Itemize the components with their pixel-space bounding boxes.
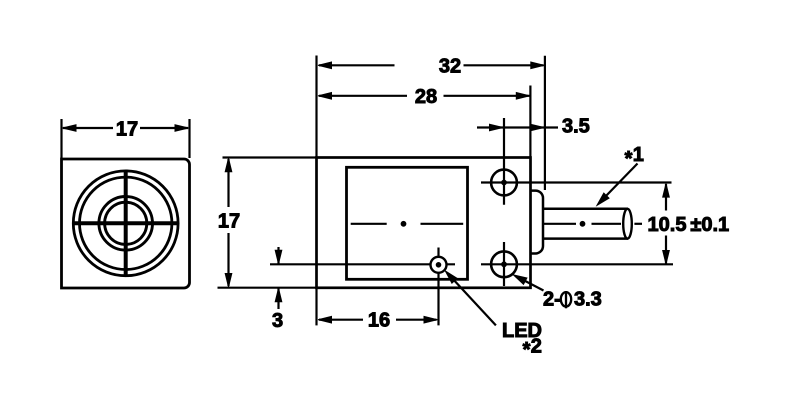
svg-text:17: 17 — [218, 211, 240, 233]
svg-text:±0.1: ±0.1 — [690, 214, 729, 236]
svg-text:3.5: 3.5 — [562, 116, 590, 138]
svg-text:1: 1 — [633, 144, 644, 166]
svg-text:2: 2 — [531, 336, 542, 358]
svg-text:32: 32 — [439, 55, 461, 77]
svg-text:17: 17 — [116, 119, 138, 141]
svg-text:3: 3 — [272, 310, 283, 332]
svg-text:16: 16 — [368, 310, 390, 332]
svg-text:28: 28 — [415, 86, 437, 108]
svg-text:10.5: 10.5 — [648, 214, 687, 236]
svg-text:*: * — [625, 148, 633, 170]
svg-text:3.3: 3.3 — [574, 289, 602, 311]
svg-text:2-: 2- — [543, 289, 561, 311]
svg-text:*: * — [523, 339, 531, 361]
